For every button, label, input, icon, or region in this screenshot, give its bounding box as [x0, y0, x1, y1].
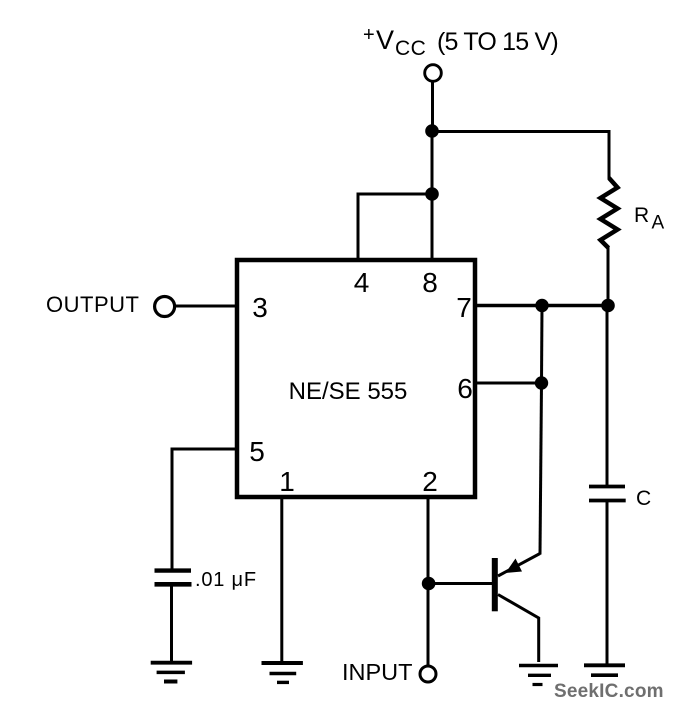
wire node D to capacitor C1 — [606, 306, 609, 486]
transistor Q1 collector lead — [498, 554, 540, 577]
wire node E down to transistor collector — [540, 383, 542, 555]
capacitor C2 (.01 uF) — [155, 571, 192, 585]
wire pin 2 to input terminal — [427, 496, 430, 665]
node D (RA / C junction) — [601, 299, 615, 313]
capacitor C1 (C) — [589, 487, 626, 501]
svg-text:2: 2 — [422, 466, 438, 497]
IC U1 NE/SE 555 body — [237, 260, 475, 497]
wire node C down to node E — [540, 306, 544, 384]
transistor Q1 emitter lead — [498, 595, 539, 663]
wire pin 1 to ground — [280, 496, 283, 662]
wire node A to resistor RA top — [432, 132, 609, 180]
node A (Vcc rail junction) — [425, 124, 439, 138]
wire node A down to node B — [431, 131, 434, 194]
svg-text:OUTPUT: OUTPUT — [46, 292, 139, 317]
svg-text:4: 4 — [354, 267, 370, 298]
svg-text:3: 3 — [252, 292, 268, 323]
svg-text:V: V — [376, 25, 394, 55]
wire pin 7 to node D — [476, 304, 608, 307]
resistor RA — [601, 178, 618, 248]
svg-text:8: 8 — [422, 267, 438, 298]
svg-text:.01 μF: .01 μF — [195, 569, 257, 591]
svg-text:NE/SE 555: NE/SE 555 — [289, 378, 408, 405]
node B (pin4/pin8 supply junction) — [425, 187, 439, 201]
node F (pin2/base junction) — [422, 577, 436, 591]
wire pin 5 to capacitor C2 — [172, 449, 237, 569]
svg-text:SeekIC.com: SeekIC.com — [554, 681, 664, 702]
svg-text:5: 5 — [249, 436, 265, 467]
input terminal — [420, 666, 436, 682]
output terminal — [155, 297, 175, 317]
label +VCC (5 TO 15 V) — [363, 24, 558, 60]
wire Vcc terminal to node A — [431, 83, 434, 132]
svg-text:+: + — [363, 24, 375, 46]
wire node F to transistor base — [429, 582, 493, 585]
svg-text:CC: CC — [395, 37, 426, 60]
svg-text:(5 TO 15 V): (5 TO 15 V) — [437, 28, 558, 56]
transistor Q1 collector arrowhead — [506, 559, 523, 574]
svg-text:A: A — [652, 213, 665, 234]
wire node B to pin 4 — [358, 194, 432, 259]
wire output terminal to pin 3 — [175, 305, 237, 308]
svg-text:7: 7 — [456, 292, 472, 323]
svg-text:INPUT: INPUT — [342, 659, 413, 685]
node C (pin7/discharge junction) — [535, 299, 548, 312]
wire pin 6 to node E — [476, 382, 542, 385]
transistor Q1 base bar — [492, 558, 498, 611]
ground (C2) — [151, 663, 192, 682]
wire resistor RA bottom to node D — [607, 247, 610, 306]
node E (pin6 junction) — [535, 376, 548, 389]
label RA — [634, 204, 665, 234]
ground (C1) — [584, 665, 625, 675]
wire capacitor C1 to ground — [606, 501, 609, 664]
ground (emitter) — [519, 666, 558, 685]
ground (pin 1) — [262, 663, 303, 682]
power terminal +Vcc — [425, 65, 442, 82]
wire node B to pin 8 — [431, 194, 434, 259]
svg-text:R: R — [634, 204, 649, 227]
wire capacitor C2 to ground — [170, 585, 173, 661]
svg-text:6: 6 — [457, 373, 473, 404]
svg-text:1: 1 — [279, 466, 295, 497]
svg-text:C: C — [636, 487, 651, 510]
